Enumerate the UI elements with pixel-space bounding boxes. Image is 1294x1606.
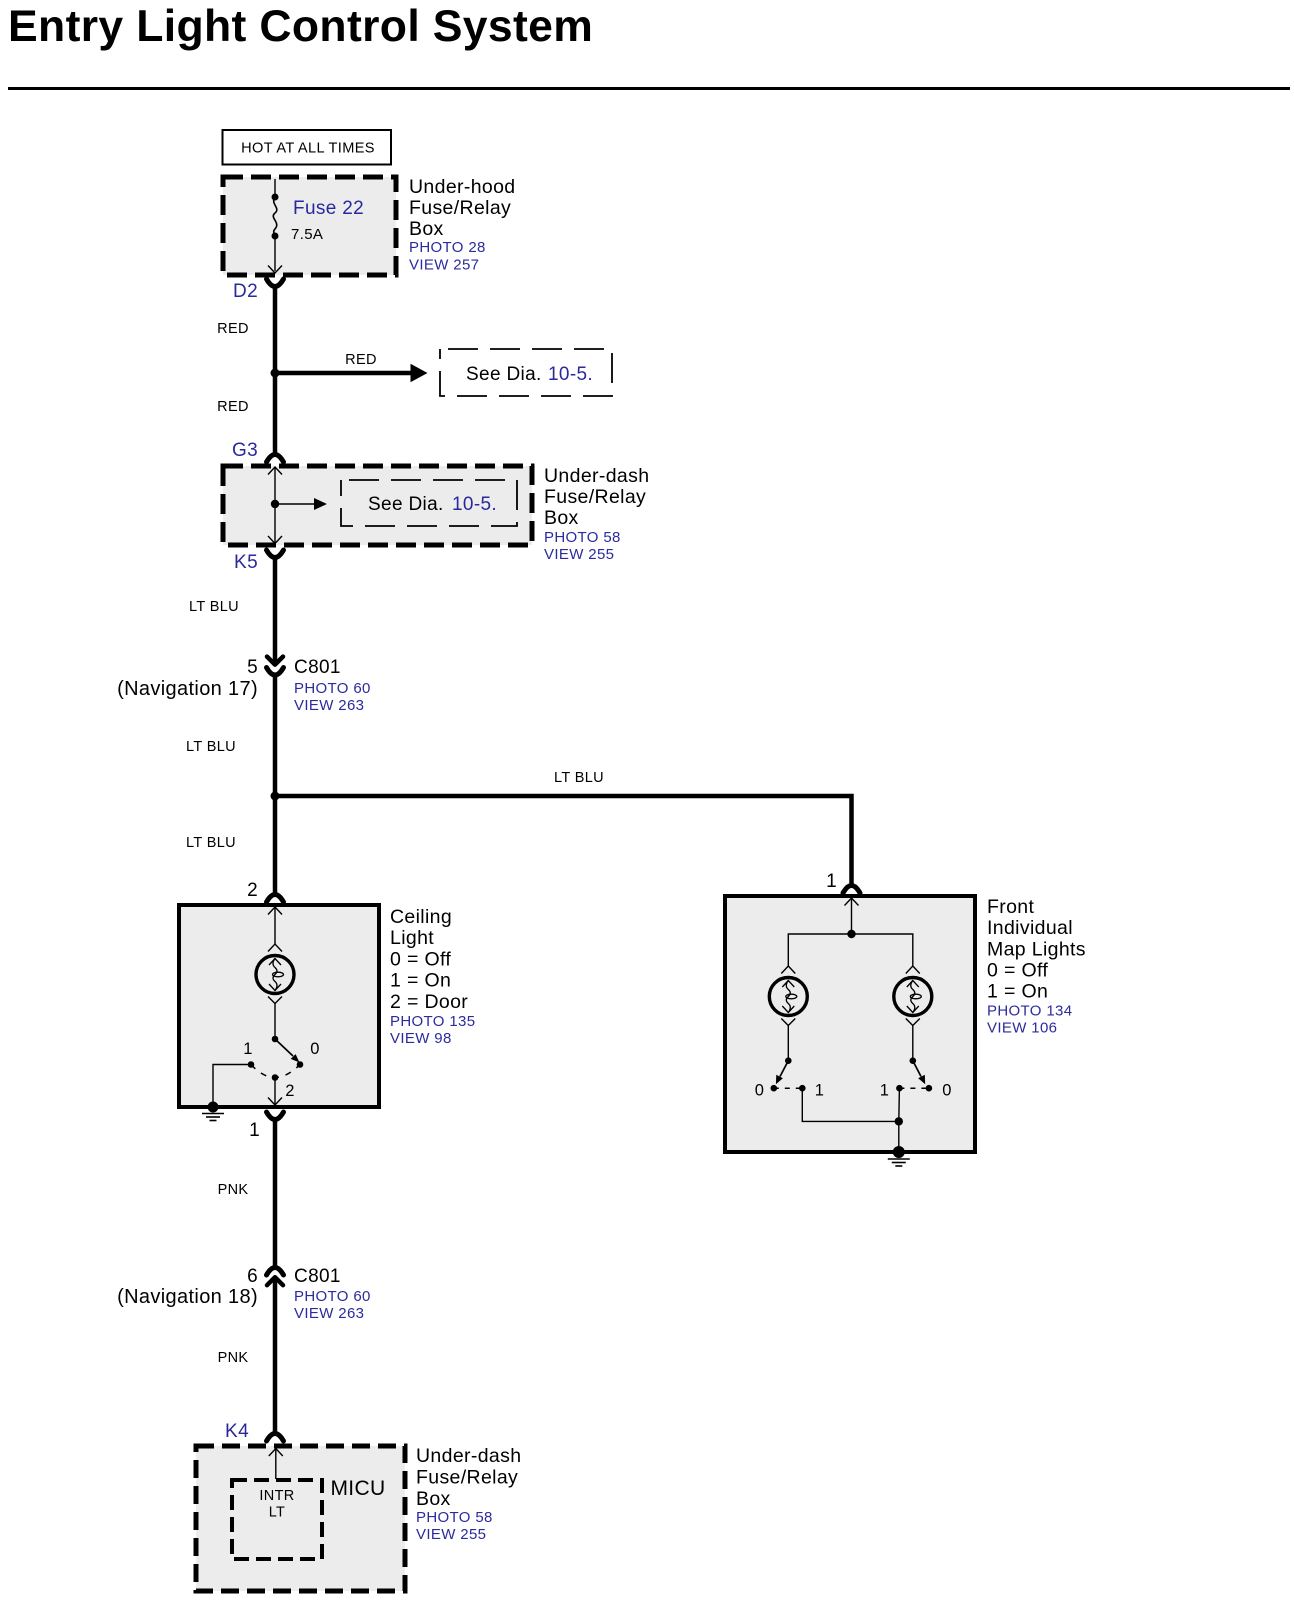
INTR LT inner box bbox=[232, 1480, 322, 1559]
MICU box labels bbox=[416, 1445, 521, 1543]
svg-text:PHOTO 135: PHOTO 135 bbox=[390, 1013, 475, 1030]
connector D2 bbox=[233, 279, 284, 302]
map lights distribution wire bbox=[788, 930, 913, 966]
svg-text:LT BLU: LT BLU bbox=[189, 599, 239, 615]
svg-text:VIEW 98: VIEW 98 bbox=[390, 1030, 452, 1047]
svg-text:C801: C801 bbox=[294, 1266, 341, 1287]
svg-text:VIEW 106: VIEW 106 bbox=[987, 1020, 1057, 1037]
svg-text:0: 0 bbox=[310, 1040, 320, 1058]
svg-text:Under-dash: Under-dash bbox=[416, 1445, 521, 1467]
svg-text:Under-dash: Under-dash bbox=[544, 465, 649, 487]
horizontal branch wire LT BLU to map lights bbox=[275, 770, 852, 886]
ground (map lights) bbox=[888, 1146, 910, 1166]
svg-text:Map Lights: Map Lights bbox=[987, 939, 1086, 961]
svg-text:PHOTO 134: PHOTO 134 bbox=[987, 1003, 1072, 1020]
svg-text:HOT AT ALL TIMES: HOT AT ALL TIMES bbox=[241, 141, 375, 157]
ceiling light labels bbox=[390, 906, 475, 1047]
svg-text:VIEW 255: VIEW 255 bbox=[544, 546, 614, 563]
map lights labels bbox=[987, 896, 1086, 1037]
junction node bbox=[271, 369, 280, 378]
svg-text:See Dia.: See Dia. bbox=[368, 494, 444, 515]
HOT AT ALL TIMES box bbox=[223, 130, 392, 165]
svg-text:1: 1 bbox=[880, 1082, 890, 1100]
svg-text:6: 6 bbox=[247, 1266, 258, 1287]
svg-text:VIEW 255: VIEW 255 bbox=[416, 1526, 486, 1543]
connector K4 bbox=[225, 1421, 283, 1442]
svg-text:Ceiling: Ceiling bbox=[390, 906, 452, 928]
under-dash box labels bbox=[544, 465, 649, 563]
svg-text:Under-hood: Under-hood bbox=[409, 176, 515, 198]
left map light switch bbox=[755, 1057, 825, 1099]
svg-text:Box: Box bbox=[416, 1488, 451, 1510]
map lights ground wiring bbox=[802, 1088, 903, 1148]
svg-text:(Navigation 17): (Navigation 17) bbox=[117, 678, 258, 700]
svg-text:VIEW 263: VIEW 263 bbox=[294, 1305, 364, 1322]
wire junction to ceiling light, LT BLU bbox=[186, 796, 275, 895]
MICU internal pin arrow bbox=[269, 1449, 283, 1480]
title rule bbox=[8, 87, 1290, 90]
svg-text:Individual: Individual bbox=[987, 917, 1073, 939]
svg-text:LT BLU: LT BLU bbox=[186, 835, 236, 851]
svg-text:G3: G3 bbox=[232, 440, 258, 461]
svg-text:MICU: MICU bbox=[330, 1477, 385, 1500]
svg-text:D2: D2 bbox=[233, 281, 258, 302]
svg-text:2: 2 bbox=[247, 880, 258, 901]
svg-text:1 = On: 1 = On bbox=[987, 981, 1048, 1003]
branch junction node bbox=[271, 792, 280, 801]
svg-text:Light: Light bbox=[390, 927, 434, 949]
svg-text:LT BLU: LT BLU bbox=[186, 739, 236, 755]
svg-text:1: 1 bbox=[249, 1120, 260, 1141]
connector G3 bbox=[232, 440, 284, 462]
connector K5 bbox=[234, 550, 283, 573]
right map light switch bbox=[880, 1057, 952, 1099]
svg-text:INTR: INTR bbox=[259, 1488, 294, 1504]
svg-text:RED: RED bbox=[217, 321, 249, 337]
ceiling light ground wire bbox=[213, 1065, 251, 1105]
ceiling light switch bbox=[243, 1036, 320, 1105]
svg-text:PHOTO 58: PHOTO 58 bbox=[416, 1509, 493, 1526]
ground (ceiling light) bbox=[202, 1102, 224, 1121]
svg-text:K4: K4 bbox=[225, 1421, 249, 1442]
svg-text:2 = Door: 2 = Door bbox=[390, 991, 468, 1013]
svg-text:1 = On: 1 = On bbox=[390, 970, 451, 992]
branch wire RED to See Dia. 10-5. bbox=[275, 352, 428, 382]
svg-text:RED: RED bbox=[345, 352, 377, 368]
svg-text:See Dia.: See Dia. bbox=[466, 364, 542, 385]
svg-text:0: 0 bbox=[755, 1082, 765, 1100]
svg-text:PHOTO 60: PHOTO 60 bbox=[294, 1288, 371, 1305]
wire K5 to C801, LT BLU bbox=[189, 557, 275, 663]
svg-text:0: 0 bbox=[942, 1082, 952, 1100]
ceiling light pin 1 connector bbox=[249, 1112, 283, 1141]
map lights entry pin arrow bbox=[845, 898, 859, 934]
under-dash internal wire and arrows bbox=[268, 467, 327, 544]
svg-text:VIEW 257: VIEW 257 bbox=[409, 257, 479, 274]
fuse Fuse 22 7.5A bbox=[268, 179, 364, 273]
svg-text:(Navigation 18): (Navigation 18) bbox=[117, 1286, 258, 1308]
See Dia. 10-5. reference box (inner) bbox=[341, 480, 517, 526]
Under-hood Fuse/Relay Box bbox=[223, 177, 396, 275]
svg-text:Fuse/Relay: Fuse/Relay bbox=[416, 1467, 518, 1489]
svg-text:Entry Light Control System: Entry Light Control System bbox=[8, 2, 593, 51]
Front Individual Map Lights box bbox=[725, 896, 975, 1152]
svg-text:K5: K5 bbox=[234, 552, 258, 573]
left map light bulb bbox=[769, 966, 807, 1060]
svg-text:VIEW 263: VIEW 263 bbox=[294, 697, 364, 714]
svg-text:PNK: PNK bbox=[218, 1182, 249, 1198]
svg-text:1: 1 bbox=[243, 1040, 253, 1058]
svg-text:2: 2 bbox=[285, 1082, 295, 1100]
connector C801 pin 6 bbox=[117, 1266, 371, 1322]
svg-text:Box: Box bbox=[409, 218, 444, 240]
svg-text:7.5A: 7.5A bbox=[291, 226, 323, 243]
svg-text:1: 1 bbox=[826, 871, 837, 892]
ceiling light pin 2 connector bbox=[247, 880, 283, 902]
svg-text:Fuse/Relay: Fuse/Relay bbox=[544, 486, 646, 508]
svg-text:C801: C801 bbox=[294, 657, 341, 678]
svg-text:LT BLU: LT BLU bbox=[554, 770, 604, 786]
svg-text:RED: RED bbox=[217, 399, 249, 415]
svg-text:Box: Box bbox=[544, 507, 579, 529]
ceiling light bulb bbox=[256, 944, 294, 1038]
svg-text:Fuse 22: Fuse 22 bbox=[293, 198, 364, 219]
svg-text:0 = Off: 0 = Off bbox=[987, 960, 1048, 982]
svg-text:PHOTO 60: PHOTO 60 bbox=[294, 680, 371, 697]
Under-dash Fuse/Relay Box (MICU) bbox=[196, 1446, 405, 1591]
svg-text:1: 1 bbox=[815, 1082, 825, 1100]
svg-text:PHOTO 28: PHOTO 28 bbox=[409, 239, 486, 256]
svg-text:PHOTO 58: PHOTO 58 bbox=[544, 529, 621, 546]
svg-text:Front: Front bbox=[987, 896, 1034, 918]
ceiling light entry pin arrow bbox=[268, 907, 282, 944]
svg-text:PNK: PNK bbox=[218, 1350, 249, 1366]
connector C801 pin 5 bbox=[117, 657, 371, 714]
Ceiling Light box bbox=[179, 905, 379, 1107]
wire C801 to branch junction, LT BLU bbox=[186, 675, 275, 796]
svg-text:10-5.: 10-5. bbox=[452, 494, 497, 515]
svg-text:10-5.: 10-5. bbox=[548, 364, 593, 385]
Under-dash Fuse/Relay Box bbox=[223, 466, 532, 545]
svg-text:LT: LT bbox=[269, 1505, 286, 1521]
under-hood box labels bbox=[409, 176, 515, 274]
wire C801 pin6 to K4, PNK bbox=[218, 1279, 275, 1435]
wire junction to G3, RED bbox=[217, 373, 275, 456]
wire D2 to junction, RED bbox=[217, 287, 275, 373]
svg-text:5: 5 bbox=[247, 657, 258, 678]
See Dia. 10-5. reference box (top) bbox=[440, 349, 612, 396]
right map light bulb bbox=[894, 966, 932, 1060]
map lights pin 1 connector bbox=[826, 871, 860, 893]
svg-text:0 = Off: 0 = Off bbox=[390, 949, 451, 971]
wire ceiling pin1 to C801 pin6, PNK bbox=[218, 1119, 275, 1266]
svg-text:Fuse/Relay: Fuse/Relay bbox=[409, 197, 511, 219]
